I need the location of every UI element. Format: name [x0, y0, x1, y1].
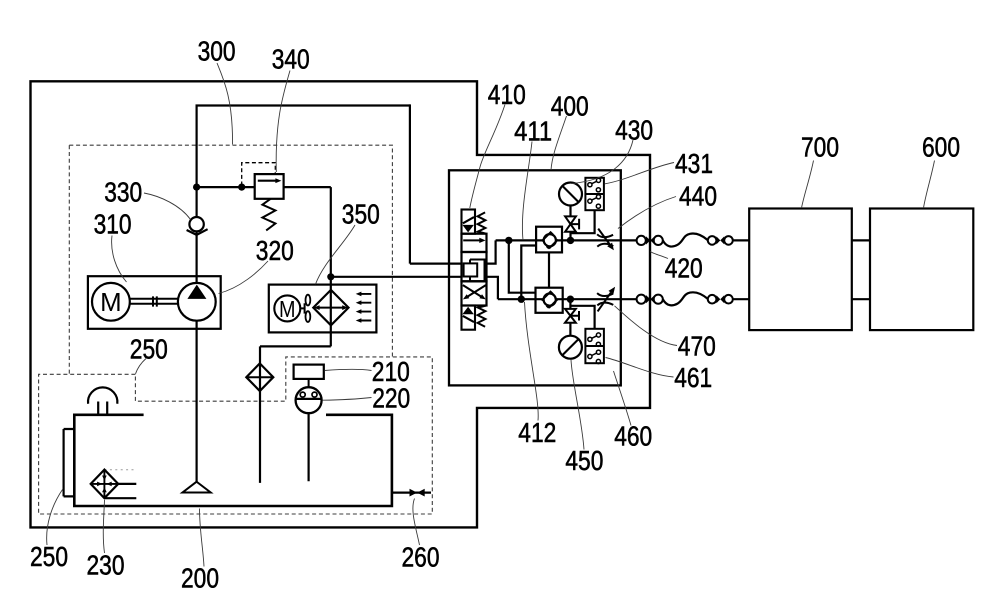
svg-text:420: 420: [665, 253, 703, 284]
svg-text:320: 320: [256, 235, 294, 266]
relief valve 340: [255, 174, 284, 230]
svg-text:440: 440: [679, 181, 717, 212]
wire relief return drop: [330, 187, 332, 277]
svg-text:310: 310: [94, 209, 132, 240]
valve spring bottom: [478, 306, 486, 327]
wire tank drain line: [392, 492, 431, 494]
junction dots: [193, 184, 574, 303]
pressure gauge 450: [559, 336, 582, 359]
pilot operated check valve upper 411: [536, 227, 562, 253]
svg-text:340: 340: [272, 44, 310, 75]
wire top pressure line horizontal: [196, 104, 410, 106]
variable throttle 470: [597, 287, 615, 312]
quick couplings 420 upper line: [637, 236, 733, 245]
svg-text:412: 412: [518, 417, 556, 448]
wire relief outlet line: [284, 186, 331, 188]
wire connector 700-600 upper: [852, 239, 870, 241]
quick couplings lower line: [637, 295, 733, 304]
svg-text:450: 450: [565, 445, 603, 476]
wire pilot cross line from B up to upper check valve: [521, 246, 536, 300]
valve spring top: [478, 212, 486, 233]
wire work line B to coupling: [498, 298, 637, 300]
cooling air arrows: [356, 292, 372, 323]
wire pressure line riser to top: [196, 106, 198, 188]
wire float switch drop into tank: [308, 413, 310, 481]
dashed enclosure around tank group 250/200: [39, 357, 433, 514]
check valve 330: [187, 217, 208, 235]
shut-off valve upper gauge line: [565, 216, 579, 231]
wire P line into valve: [410, 263, 462, 265]
leader lines: [47, 63, 935, 567]
svg-text:600: 600: [922, 132, 960, 163]
wire pressure switch 461 stem: [570, 306, 594, 329]
svg-text:410: 410: [488, 79, 526, 110]
wire hose tail to box 700 upper: [733, 239, 749, 241]
svg-text:460: 460: [614, 420, 652, 451]
svg-text:411: 411: [514, 116, 552, 147]
valve centre position blocked symbol: [464, 260, 485, 282]
wire return drop through filter into tank: [259, 346, 261, 483]
svg-text:230: 230: [87, 550, 125, 581]
wire pump outlet riser: [196, 187, 198, 285]
wire junction down through cooler: [330, 277, 332, 347]
pressure gauge 430: [559, 183, 582, 206]
svg-text:430: 430: [615, 114, 653, 145]
svg-text:250: 250: [30, 541, 68, 572]
box 600: [870, 209, 973, 331]
wire pilot cross line from A down to lower check valve: [509, 240, 536, 292]
pressure switch block 431: [585, 178, 604, 210]
wire valve port B jog down: [487, 277, 498, 299]
svg-text:M: M: [100, 289, 122, 317]
wire hose tail to box 700 lower: [733, 298, 749, 300]
dotted mark near filter 230: [105, 469, 136, 471]
proportional solenoid bottom: [462, 306, 476, 330]
wire filter 230 stub upper: [118, 483, 136, 485]
wire pressure switch 431 stem: [571, 210, 595, 233]
heat exchanger diamond: [313, 290, 348, 325]
directional control valve 410 body: [462, 234, 487, 306]
pilot operated check valve lower 412: [536, 288, 563, 313]
breather 250: [88, 387, 117, 414]
wire between check valve blocks: [548, 253, 550, 288]
level transmitter 210: [294, 365, 324, 388]
proportional solenoid top: [462, 210, 476, 234]
box 700: [749, 209, 852, 331]
svg-text:700: 700: [801, 132, 839, 163]
wire valve port A jog up: [487, 240, 496, 263]
valve position a arrow: [463, 238, 485, 243]
svg-text:431: 431: [675, 148, 713, 179]
tank sight glass: [64, 429, 75, 496]
svg-text:220: 220: [372, 383, 410, 414]
wire relief branch line: [197, 186, 255, 188]
shut-off valve lower gauge line: [565, 309, 579, 323]
wire connector 700-600 lower: [852, 298, 870, 300]
svg-text:200: 200: [181, 563, 219, 594]
svg-text:260: 260: [402, 541, 440, 572]
wire gauge stem lower line: [569, 299, 571, 336]
svg-text:300: 300: [198, 35, 236, 66]
svg-text:461: 461: [674, 362, 712, 393]
fan motor M: [274, 295, 300, 321]
outer system boundary: [31, 81, 651, 527]
motor-pump unit box 310/320: [88, 276, 221, 329]
dashed enclosure around pump group 300: [69, 145, 392, 374]
svg-text:350: 350: [342, 199, 380, 230]
tank filter 230: [91, 470, 119, 499]
svg-text:250: 250: [130, 334, 168, 365]
hose lower: [663, 292, 708, 305]
svg-text:M: M: [279, 296, 296, 322]
wire pressure line drop to valve: [409, 104, 411, 263]
oil tank 200: [74, 415, 392, 506]
svg-text:330: 330: [104, 176, 142, 207]
hose upper: [663, 234, 708, 247]
svg-text:470: 470: [678, 331, 716, 362]
wire work line A to coupling: [496, 239, 637, 241]
valve block 400 outline: [449, 170, 621, 385]
wire suction line pump to strainer: [196, 321, 198, 482]
svg-text:400: 400: [551, 91, 589, 122]
float switch 220: [296, 387, 322, 413]
hydraulic pump 320: [178, 283, 216, 321]
cooler fan unit box 350: [269, 285, 377, 333]
wire cooler outlet elbow: [260, 345, 331, 347]
shaft coupling: [130, 296, 178, 306]
valve position b crossed arrows: [463, 285, 486, 299]
wire gauge stem upper line: [569, 206, 571, 241]
variable throttle 440: [597, 229, 614, 251]
relief valve pilot dashed line: [242, 163, 276, 186]
pressure switch block 461: [585, 329, 604, 364]
suction strainer: [183, 482, 211, 493]
wire filter 230 stub lower: [105, 497, 137, 499]
wire T return line valve to junction: [331, 276, 462, 278]
electric motor M 310: [92, 283, 130, 321]
drain shut-off valve 260: [410, 489, 425, 497]
return filter diamond: [246, 363, 273, 391]
fan blades: [300, 295, 310, 322]
